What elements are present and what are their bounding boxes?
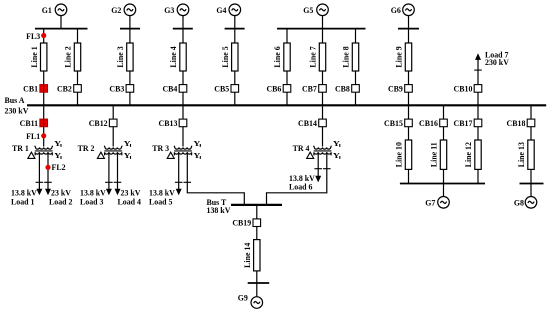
line Line 14 (243, 240, 260, 271)
wire TR 4 secondary to Load 6 (317, 152, 319, 176)
wire G1 stub (60, 16, 62, 29)
generator bar of G5 (277, 28, 366, 30)
generator G1 (42, 4, 67, 16)
svg-text:TR 4: TR 4 (293, 144, 310, 153)
wire bar5 to Line 8 (355, 29, 357, 43)
wire Line 11 to lower bar (443, 169, 445, 183)
wire Bus A via CB11 to TR 1 (43, 105, 45, 146)
svg-text:Load 1: Load 1 (11, 197, 35, 206)
isolator tick (184, 181, 192, 183)
circuit breaker CB8 (335, 84, 359, 93)
line Line 2 (64, 43, 81, 71)
svg-text:FL3: FL3 (26, 32, 40, 41)
wire Line 3 via CB3 to Bus A (129, 71, 131, 105)
circuit breaker CB18 (507, 119, 535, 128)
svg-text:CB9: CB9 (388, 84, 403, 93)
wire Line 13 to lower bar (530, 169, 532, 183)
svg-text:CB19: CB19 (232, 219, 251, 228)
svg-text:23 kV: 23 kV (51, 189, 71, 198)
wire CB1 to Bus A (43, 88, 45, 105)
wire Bus A via CB13 to TR 3 (182, 105, 184, 146)
circuit breaker CB10 (454, 84, 482, 93)
generator bar of G4 (225, 28, 245, 30)
svg-text:Line 5: Line 5 (221, 46, 230, 67)
wire TR 3 secondary to Bus T (187, 152, 244, 204)
circuit breaker CB4 (162, 84, 186, 93)
circuit breaker CB5 (214, 84, 238, 93)
generator G7 (425, 197, 449, 209)
svg-text:CB16: CB16 (419, 119, 438, 128)
wire bar2 to Line 3 (129, 29, 131, 43)
line Line 5 (221, 43, 238, 71)
svg-text:CB11: CB11 (20, 119, 38, 128)
generator G8 (514, 197, 537, 209)
wire Line 12 to lower bar (477, 169, 479, 183)
transformer TR 3 (152, 144, 192, 156)
wire Line 10 to lower bar (408, 169, 410, 183)
svg-text:G2: G2 (111, 6, 121, 15)
svg-text:FL2: FL2 (52, 163, 66, 172)
svg-text:CB15: CB15 (384, 119, 403, 128)
wire TR 3 secondary to Load 5 (178, 152, 180, 189)
line Line 10 (395, 140, 412, 169)
svg-text:TR 2: TR 2 (78, 144, 95, 153)
svg-text:CB18: CB18 (507, 119, 526, 128)
delta winding symbol of TR 2 (97, 152, 104, 158)
arrow of Load 5 (176, 189, 182, 196)
svg-text:CB4: CB4 (162, 84, 177, 93)
svg-text:Line 9: Line 9 (395, 46, 404, 67)
line Line 12 (464, 140, 481, 169)
wire Line 2 via CB2 to Bus A (77, 71, 79, 105)
lower bar feeding G7 (400, 183, 485, 185)
svg-text:Line 2: Line 2 (64, 46, 73, 67)
svg-text:Line 4: Line 4 (169, 46, 178, 67)
circuit breaker CB11 (20, 119, 48, 128)
circuit breaker CB15 (384, 119, 412, 128)
generator bar of G1 (35, 28, 88, 30)
svg-text:CB10: CB10 (454, 84, 473, 93)
lower bar feeding G8 (520, 183, 544, 185)
generator G5 (303, 4, 328, 16)
svg-text:230 kV: 230 kV (5, 107, 29, 116)
wire G4 stub (234, 16, 236, 29)
wye winding symbol 1 of TR 3 (193, 139, 201, 148)
line Line 7 (309, 43, 326, 71)
wire Bus A to Line 12 (477, 105, 479, 140)
wire bar5 to Line 6 (286, 29, 288, 43)
circuit breaker CB17 (454, 119, 482, 128)
isolator tick (114, 181, 122, 183)
generator bar of G6 (398, 28, 419, 30)
circuit breaker CB19 (232, 219, 260, 228)
svg-text:CB5: CB5 (214, 84, 229, 93)
circuit breaker CB7 (302, 84, 326, 93)
svg-text:Line 8: Line 8 (342, 46, 351, 67)
svg-text:G8: G8 (514, 198, 524, 207)
svg-text:CB2: CB2 (57, 84, 72, 93)
svg-text:Load 2: Load 2 (49, 197, 73, 206)
transformer TR 4 (293, 144, 332, 156)
wire TR 2 left secondary (108, 152, 110, 189)
line Line 13 (517, 140, 534, 169)
svg-text:Line 10: Line 10 (395, 142, 404, 167)
generator bar of G3 (173, 28, 193, 30)
circuit breaker CB2 (57, 84, 81, 93)
wire G9 stub (256, 283, 258, 296)
wire Bus A via CB14 to TR 4 (322, 105, 324, 146)
wire TR 1 left secondary (38, 152, 40, 189)
wire G7 stub (443, 184, 445, 197)
svg-text:Line 3: Line 3 (116, 46, 125, 67)
arrow of Load 7 (475, 53, 481, 60)
fault location FL1 (26, 132, 46, 141)
svg-text:138 kV: 138 kV (207, 206, 231, 215)
svg-text:CB14: CB14 (298, 119, 317, 128)
svg-text:TR 1: TR 1 (12, 144, 29, 153)
circuit breaker CB16 (419, 119, 447, 128)
svg-text:Bus A: Bus A (5, 96, 25, 105)
line Line 1 (30, 43, 47, 71)
wire bar4 to Line 5 (234, 29, 236, 43)
Bus T 138 kV busbar (231, 204, 282, 206)
svg-text:G3: G3 (164, 6, 174, 15)
wire Bus A to Line 11 (443, 105, 445, 140)
svg-text:230 kV: 230 kV (485, 58, 509, 67)
wire Line 9 via CB9 to Bus A (408, 71, 410, 105)
line Line 3 (116, 43, 133, 71)
fault location FL2 (45, 163, 65, 172)
wire G3 stub (182, 16, 184, 29)
generator bar of G2 (120, 28, 140, 30)
svg-text:Load 6: Load 6 (289, 182, 313, 191)
svg-text:CB17: CB17 (454, 119, 473, 128)
generator G6 (391, 4, 415, 16)
isolator tick (105, 181, 113, 183)
svg-text:Load 3: Load 3 (80, 197, 104, 206)
svg-text:TR 3: TR 3 (152, 144, 169, 153)
circuit breaker CB6 (266, 84, 290, 93)
wire Line 8 to Bus A (355, 71, 357, 105)
transformer TR 2 (78, 144, 123, 156)
wire bar3 to Line 4 (182, 29, 184, 43)
isolator tick (175, 181, 183, 183)
delta winding symbol of TR 3 (167, 152, 174, 158)
wye winding symbol 2 of TR 4 (333, 151, 341, 160)
circuit breaker CB3 (109, 84, 133, 93)
isolator tick (36, 181, 44, 183)
line Line 9 (395, 43, 412, 71)
svg-text:Line 12: Line 12 (464, 142, 473, 167)
wye winding symbol 1 of TR 2 (124, 139, 132, 148)
svg-text:13.8 kV: 13.8 kV (149, 189, 175, 198)
wire G5 stub (322, 16, 324, 29)
svg-text:Line 11: Line 11 (430, 142, 439, 167)
circuit breaker CB9 (388, 84, 412, 93)
wire Bus A via CB12 to TR 2 (112, 105, 114, 146)
isolator tick (314, 168, 322, 170)
arrow of Load 2 (45, 189, 51, 196)
transformer TR 1 (12, 144, 53, 156)
circuit breaker CB1 (23, 84, 47, 93)
wire G8 stub (530, 184, 532, 197)
isolator tick of Load 7 (474, 69, 482, 71)
arrow of Load 3 (106, 189, 112, 196)
circuit breaker CB12 (89, 119, 117, 128)
svg-text:13.8 kV: 13.8 kV (80, 189, 106, 198)
svg-text:Line 14: Line 14 (243, 243, 252, 268)
svg-text:CB6: CB6 (266, 84, 281, 93)
wire Line 6 to Bus A (286, 71, 288, 105)
wire bar1 to Line 1 (43, 29, 45, 43)
isolator tick (323, 168, 331, 170)
wire TR 4 secondary to Bus T (267, 152, 327, 204)
wire TR 1 right secondary (47, 152, 49, 189)
line Line 6 (273, 43, 290, 71)
generator bar of G9 (248, 282, 270, 284)
svg-text:G7: G7 (425, 198, 435, 207)
svg-text:G4: G4 (216, 6, 226, 15)
line Line 4 (169, 43, 186, 71)
generator G9 (238, 294, 263, 309)
fault location FL3 (26, 32, 46, 41)
delta winding symbol of TR 4 (307, 152, 314, 158)
svg-text:Load 5: Load 5 (149, 197, 173, 206)
wire TR 2 right secondary (117, 152, 119, 189)
arrow of Load 1 (36, 189, 42, 196)
svg-text:Line 1: Line 1 (30, 46, 39, 67)
svg-text:CB1: CB1 (23, 84, 38, 93)
circuit breaker CB13 (159, 119, 187, 128)
wire Bus T via CB19 to Line 14 (256, 205, 258, 240)
svg-text:G1: G1 (42, 6, 52, 15)
svg-text:CB8: CB8 (335, 84, 350, 93)
wye winding symbol 2 of TR 3 (193, 151, 201, 160)
svg-text:Load 4: Load 4 (118, 197, 142, 206)
wire Line 5 via CB5 to Bus A (234, 71, 236, 105)
wire G2 stub (129, 16, 131, 29)
svg-text:CB3: CB3 (109, 84, 124, 93)
wire Line 1 to CB1 (43, 71, 45, 88)
line Line 11 (430, 140, 447, 169)
svg-text:G9: G9 (238, 294, 248, 303)
wye winding symbol 1 of TR 4 (333, 139, 341, 148)
wire Line 4 via CB4 to Bus A (182, 71, 184, 105)
svg-text:G6: G6 (391, 6, 401, 15)
svg-text:FL1: FL1 (26, 132, 40, 141)
wire Bus A to Line 13 (530, 105, 532, 140)
wire bar1 to Line 2 (77, 29, 79, 43)
generator G4 (216, 4, 240, 16)
wye winding symbol 2 of TR 1 (54, 151, 62, 160)
wye winding symbol 1 of TR 1 (54, 139, 62, 148)
Bus A 230 kV busbar (27, 104, 546, 106)
svg-text:Line 6: Line 6 (273, 46, 282, 67)
wire bar5 to Line 7 (322, 29, 324, 43)
svg-text:G5: G5 (303, 6, 313, 15)
arrow of Load 4 (115, 189, 121, 196)
wye winding symbol 2 of TR 2 (124, 151, 132, 160)
delta winding symbol of TR 1 (28, 152, 35, 158)
isolator tick (44, 181, 52, 183)
wire Line 7 to Bus A (322, 71, 324, 105)
wire Bus A to Load 7 (477, 56, 479, 105)
wire Bus A to Line 10 (408, 105, 410, 140)
wire Line 14 to G9 bar (256, 271, 258, 283)
arrow of Load 6 (315, 176, 321, 183)
wire G6 stub (408, 16, 410, 29)
generator G3 (164, 4, 189, 16)
svg-text:23 kV: 23 kV (121, 189, 141, 198)
line Line 8 (342, 43, 359, 71)
svg-text:CB12: CB12 (89, 119, 108, 128)
svg-text:13.8 kV: 13.8 kV (11, 189, 37, 198)
wire bar6 to Line 9 (408, 29, 410, 43)
generator G2 (111, 4, 136, 16)
svg-text:Line 7: Line 7 (309, 46, 318, 67)
circuit breaker CB14 (298, 119, 326, 128)
svg-text:Line 13: Line 13 (517, 142, 526, 167)
svg-text:CB7: CB7 (302, 84, 317, 93)
svg-text:CB13: CB13 (159, 119, 178, 128)
